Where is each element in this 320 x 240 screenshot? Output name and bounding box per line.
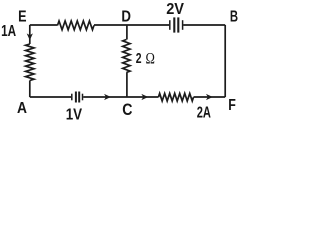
svg-text:E: E [18, 9, 27, 26]
svg-text:2: 2 [136, 50, 142, 67]
svg-text:2A: 2A [197, 105, 211, 122]
svg-text:D: D [121, 8, 131, 25]
svg-text:2V: 2V [166, 1, 184, 18]
svg-text:A: A [17, 100, 27, 117]
svg-text:1V: 1V [66, 107, 83, 121]
svg-text:Ω: Ω [146, 51, 155, 68]
svg-text:B: B [230, 9, 238, 26]
svg-text:C: C [122, 100, 132, 119]
svg-text:1A: 1A [1, 23, 16, 40]
svg-text:F: F [228, 97, 236, 114]
